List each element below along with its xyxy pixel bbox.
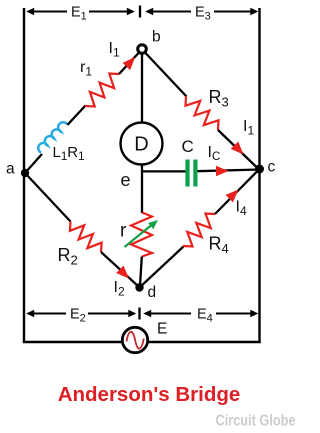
node a (junction dot) — [21, 169, 29, 177]
svg-text:E: E — [157, 321, 167, 338]
wire: right rail c to bottom — [258, 169, 260, 343]
node c (junction dot) — [255, 165, 264, 174]
dimension tick above source — [138, 308, 140, 320]
variable resistor arrow (green diagonal) — [125, 223, 155, 247]
dimension line E2 (bottom left) — [31, 313, 66, 315]
svg-text:r: r — [120, 221, 127, 242]
wire: resistor r1 to node b — [119, 53, 139, 75]
svg-text:c: c — [268, 159, 276, 176]
resistor R3 (red zigzag) — [186, 96, 219, 130]
current arrow Ic toward node c — [216, 166, 229, 177]
wire: capacitor C to node c — [198, 170, 260, 172]
detector D (circle) — [121, 123, 163, 165]
wire: left rail a to top — [23, 8, 25, 173]
current arrow I4 toward node c — [226, 190, 239, 203]
wire: node e to capacitor C — [141, 170, 186, 172]
svg-text:C: C — [182, 137, 194, 156]
svg-text:a: a — [6, 161, 15, 178]
current arrow I1 into node b — [123, 57, 136, 70]
wire: resistor R4 to node c — [215, 171, 258, 215]
wire: resistor R3 to node c — [218, 130, 258, 169]
dimension tick above node b — [139, 6, 141, 18]
resistor r1 (red zigzag) — [85, 74, 119, 107]
wire: node b to resistor R3 — [146, 53, 187, 97]
wire: right rail c to top — [258, 8, 260, 169]
wire: a to resistor R2 — [25, 173, 71, 222]
wire: a to inductor L1R1 — [25, 154, 42, 173]
capacitor C plate 1 (green) — [185, 160, 189, 187]
svg-text:D: D — [134, 134, 148, 156]
dimension line E1 (top left) — [31, 11, 67, 13]
svg-text:b: b — [152, 29, 161, 46]
capacitor C plate 2 (green) — [193, 160, 197, 187]
AC source E (circle) — [122, 327, 147, 352]
dimension line E3 (top right) — [150, 11, 191, 13]
resistor R2 (red zigzag) — [70, 222, 102, 253]
svg-text:d: d — [148, 284, 157, 301]
resistor R4 (red zigzag) — [183, 214, 215, 247]
wire: source E to bottom right — [148, 341, 261, 343]
svg-text:Circuit Globe: Circuit Globe — [216, 413, 296, 430]
wire: node b to detector D — [141, 53, 143, 122]
current arrow I1 into node c — [231, 142, 244, 155]
wire: bottom left to source E — [23, 341, 123, 343]
wire: left rail a to bottom — [23, 173, 25, 343]
dimension line E4 (bottom right) — [148, 313, 191, 315]
node b (open terminal ring) — [138, 45, 147, 54]
wire: node d to resistor R4 — [140, 247, 184, 288]
wire: resistor R2 to node d — [101, 252, 138, 286]
resistor r (red vertical zigzag) — [131, 213, 152, 257]
AC source sine wave (red) — [127, 332, 144, 349]
svg-text:e: e — [121, 170, 131, 190]
wire: inductor to resistor r1 — [68, 106, 86, 125]
inductor L1R1 (blue coil) — [38, 122, 67, 152]
current arrow I2 into node d — [116, 266, 129, 279]
node d (junction dot) — [135, 283, 143, 291]
svg-text:Anderson's Bridge: Anderson's Bridge — [58, 383, 241, 406]
wire: resistor r to node d — [140, 257, 142, 287]
wire: detector D to node e and resistor r — [141, 165, 143, 214]
